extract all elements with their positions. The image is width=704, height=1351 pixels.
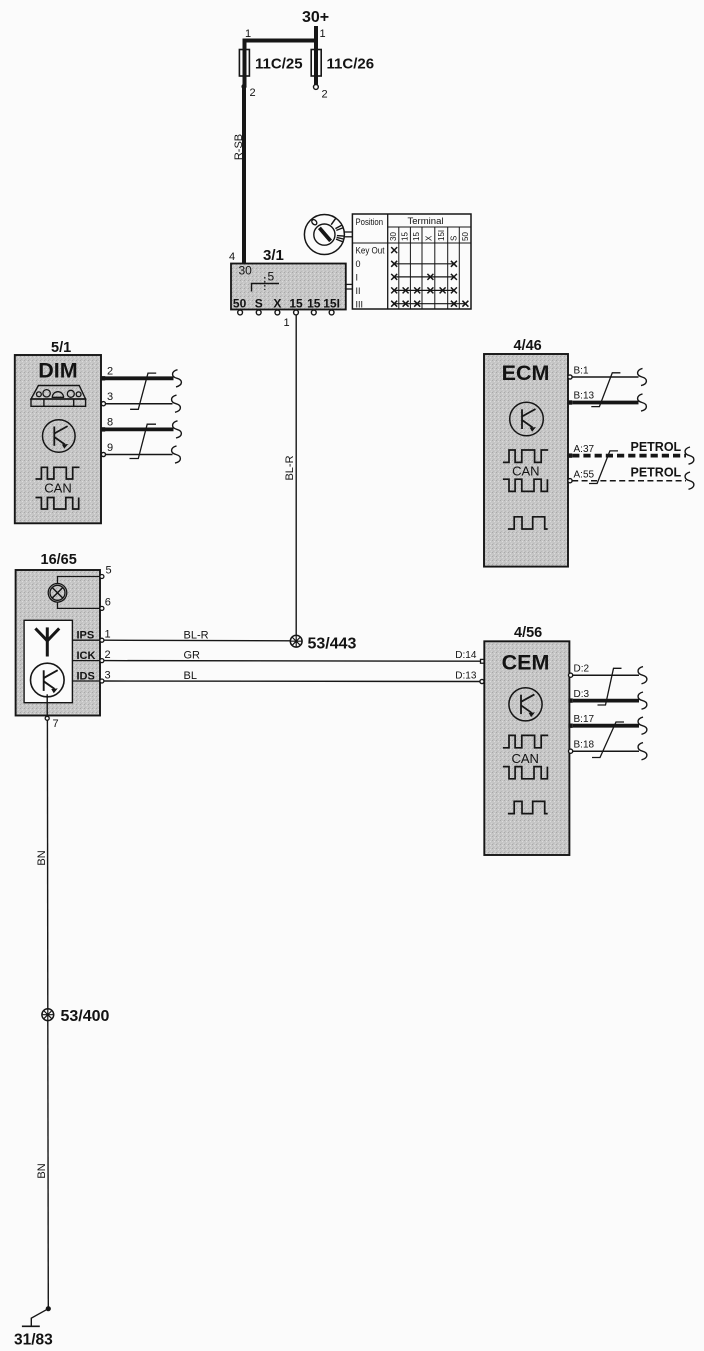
pin 2 of fuse 11C/26 open terminal (314, 85, 328, 101)
label 53/400 (61, 1008, 110, 1025)
ECM aux square wave (508, 517, 548, 529)
svg-text:CEM: CEM (502, 650, 550, 674)
svg-text:7: 7 (53, 718, 59, 730)
pin 7 of 16/65 (45, 716, 58, 730)
svg-text:30+: 30+ (302, 9, 329, 26)
wire from CEM D:3 (573, 699, 639, 703)
svg-text:IPS: IPS (77, 630, 95, 642)
pin D:3 of CEM (568, 689, 589, 703)
pin 2 of 16/65 (100, 649, 111, 663)
wire break squiggle pin 8 (173, 421, 182, 438)
wire from DIM pin 9 (106, 454, 173, 456)
terminal ICK link (72, 650, 100, 662)
ground connection dot (46, 1306, 51, 1311)
pin D:14 of CEM (481, 659, 485, 663)
wire fuse 11C/25 branch vertical (243, 41, 247, 87)
terminal 5 dashed linkage (265, 270, 275, 291)
wire break squiggle B:1 (638, 368, 647, 385)
wire from ECM B:13 (572, 401, 638, 405)
wire from CEM B:17 (573, 724, 639, 728)
indicator lamp symbol (48, 584, 67, 603)
terminal IPS link (72, 630, 100, 642)
key switch symbol (304, 215, 344, 255)
table row label II (356, 286, 361, 296)
label PETROL lower (631, 466, 682, 480)
antenna symbol (35, 627, 59, 656)
svg-text:III: III (356, 299, 364, 309)
pin 6 of 16/65 (100, 597, 111, 611)
label 31/83 (14, 1332, 53, 1349)
pin A:37 of ECM (568, 444, 595, 458)
wire from ECM A:55 petrol dashed thin (572, 480, 686, 482)
svg-text:S: S (449, 236, 458, 241)
svg-text:53/443: 53/443 (308, 636, 357, 653)
label 11C/25 (255, 56, 303, 73)
svg-text:II: II (356, 286, 361, 296)
wire 30+ horizontal bus to fuse 11C/25 (243, 39, 319, 43)
svg-text:2: 2 (105, 649, 111, 661)
ground 31/83 symbol (22, 1309, 48, 1327)
wire break squiggle pin 2 (173, 370, 182, 387)
svg-text:ICK: ICK (77, 650, 96, 662)
table row label III (356, 299, 364, 309)
table header Position (356, 217, 384, 227)
svg-text:X: X (273, 297, 281, 311)
pin 2 of DIM (101, 366, 113, 381)
pin B:18 of CEM (569, 740, 595, 754)
wire break squiggle A:37 (685, 447, 694, 464)
svg-text:BL-R: BL-R (184, 629, 209, 641)
svg-text:B:1: B:1 (574, 365, 589, 376)
table row Key Out mark (391, 247, 397, 253)
svg-text:BL: BL (184, 670, 197, 682)
svg-text:BN: BN (36, 850, 48, 865)
label BL-R horizontal (184, 629, 209, 641)
pin 3 of DIM (101, 391, 113, 406)
svg-text:D:13: D:13 (455, 671, 477, 682)
immobilizer antenna unit inner box (24, 620, 72, 702)
pin B:17 of CEM (568, 714, 594, 728)
svg-text:15: 15 (412, 232, 421, 241)
svg-text:1: 1 (284, 317, 290, 329)
wire break squiggle B:18 (638, 743, 647, 760)
pair slash DIM 8/9 (130, 424, 157, 458)
wire from ECM A:37 petrol dashed thick (572, 454, 686, 458)
engine control module ECM 4/46 body (484, 354, 568, 567)
label D:14 (455, 650, 477, 661)
label BN upper (36, 850, 48, 865)
svg-text:4/56: 4/56 (514, 625, 542, 641)
svg-text:ECM: ECM (502, 361, 550, 385)
svg-text:1: 1 (245, 28, 251, 40)
label BL-R vertical (284, 455, 296, 480)
svg-text:CAN: CAN (44, 480, 71, 495)
ignition switch 3/1 body (231, 264, 346, 310)
pin 1 of fuse 11C/25 (245, 28, 251, 40)
svg-text:B:13: B:13 (574, 391, 595, 402)
CEM electronic unit icon (509, 688, 542, 721)
ECM CAN square wave upper (503, 450, 548, 462)
pin D:13 of CEM (480, 679, 484, 683)
label 11C/26 (327, 56, 375, 73)
fuse 11C/26 (311, 50, 321, 77)
ECM electronic unit icon (510, 402, 544, 436)
table row I contact line and marks (391, 274, 457, 280)
wire GR from pin 2 to CEM D:14 (104, 660, 481, 663)
svg-text:D:3: D:3 (574, 689, 590, 700)
svg-text:B:18: B:18 (574, 740, 595, 751)
switch wiper symbol (252, 284, 280, 292)
pair slash CEM D:2/D:3 (598, 668, 622, 705)
pin B:13 of ECM (568, 391, 595, 405)
svg-text:Terminal: Terminal (408, 216, 444, 226)
svg-text:D:2: D:2 (574, 664, 590, 675)
svg-text:3/1: 3/1 (263, 247, 284, 264)
wire from DIM pin 3 (106, 403, 173, 405)
key position III ticks (336, 236, 344, 242)
wires switch body to table (346, 284, 353, 289)
svg-text:Position: Position (356, 217, 384, 227)
svg-text:GR: GR (184, 650, 201, 662)
svg-text:16/65: 16/65 (41, 552, 77, 568)
svg-text:3: 3 (105, 669, 111, 681)
pin 3 of 16/65 (100, 669, 111, 683)
fuse 11C/25 (239, 50, 249, 77)
wire from CEM B:18 (573, 750, 639, 752)
node 30+ supply label (302, 9, 329, 26)
label R-SB (233, 134, 245, 160)
wire BN lower from splice to ground (47, 1021, 50, 1309)
svg-text:30: 30 (389, 232, 398, 241)
svg-text:50: 50 (461, 232, 470, 241)
pin A:55 of ECM (568, 469, 595, 483)
svg-text:IDS: IDS (77, 670, 95, 682)
svg-text:31/83: 31/83 (14, 1332, 53, 1349)
svg-text:11C/26: 11C/26 (327, 56, 375, 73)
16/65 electronic unit icon (31, 663, 65, 697)
table row 0 contact line and marks (391, 261, 457, 267)
splice 53/400 (42, 1009, 54, 1021)
svg-text:1: 1 (320, 28, 326, 40)
wire from DIM pin 2 (105, 376, 174, 380)
label 16/65 (41, 552, 77, 568)
pin 9 of DIM (101, 442, 113, 457)
wire from DIM pin 8 (105, 427, 174, 431)
ECM CAN square wave lower (503, 479, 548, 491)
DIM CAN square wave lower (36, 498, 79, 510)
pin D:2 of CEM (569, 664, 590, 678)
svg-text:8: 8 (107, 417, 113, 429)
pin 4 of ignition switch (229, 251, 235, 263)
wires key symbol to table (344, 232, 352, 237)
svg-text:D:14: D:14 (455, 650, 477, 661)
lamp wiring to pins 5 and 6 (58, 577, 101, 609)
svg-text:1: 1 (105, 629, 111, 641)
terminal IDS link (72, 670, 100, 682)
CEM aux square wave (508, 801, 548, 813)
svg-text:4/46: 4/46 (514, 338, 542, 354)
key position table frame (352, 214, 471, 309)
wire break squiggle pin 9 (172, 446, 181, 463)
svg-text:BL-R: BL-R (284, 455, 296, 480)
wire 30+ feed vertical (314, 26, 318, 85)
switch terminal labels 50 S X 15 15 15I (233, 297, 340, 311)
pair slash DIM 2/3 (130, 373, 156, 409)
label CEM (502, 650, 550, 674)
svg-text:S: S (255, 297, 263, 311)
label 4/56 (514, 625, 542, 641)
table terminal column labels (389, 230, 470, 241)
svg-text:15: 15 (400, 232, 409, 241)
label PETROL upper (631, 440, 682, 454)
table row III contact line and marks (391, 301, 468, 307)
table row label 0 (356, 259, 361, 269)
table row label I (356, 273, 359, 283)
pair slash ECM B:1/B:13 (591, 373, 620, 407)
label 4/46 (514, 338, 542, 354)
svg-text:2: 2 (107, 366, 113, 378)
svg-text:30: 30 (239, 264, 253, 278)
svg-text:PETROL: PETROL (631, 440, 682, 454)
svg-text:BN: BN (36, 1163, 48, 1178)
svg-text:5: 5 (106, 565, 112, 577)
svg-text:PETROL: PETROL (631, 466, 682, 480)
label CAN (ECM) (512, 464, 539, 479)
wire break squiggle D:2 (638, 667, 647, 684)
pin 1 of 16/65 (100, 629, 111, 643)
label 5/1 (51, 340, 71, 356)
instrument cluster icon (31, 386, 86, 407)
wire break squiggle B:17 (638, 717, 647, 734)
key position II ticks (335, 225, 342, 230)
svg-text:2: 2 (250, 87, 256, 99)
label ECM (502, 361, 550, 385)
pin 8 of DIM (101, 417, 113, 432)
svg-text:15: 15 (307, 297, 321, 311)
CEM CAN square wave lower (503, 767, 548, 779)
svg-text:2: 2 (322, 89, 328, 101)
pair slash CEM B:17/B:18 (592, 722, 624, 758)
svg-text:3: 3 (107, 391, 113, 403)
table header Terminal (408, 216, 444, 226)
wire from CEM D:2 (573, 674, 639, 676)
label CAN (DIM) (44, 480, 71, 495)
pin 1 of fuse 11C/26 (320, 28, 326, 40)
svg-text:15I: 15I (437, 230, 446, 241)
pin B:1 of ECM (568, 365, 589, 379)
label 3/1 (263, 247, 284, 264)
label D:13 (455, 671, 477, 682)
svg-text:5: 5 (268, 270, 275, 284)
wire from ECM B:1 (572, 376, 638, 378)
svg-text:53/400: 53/400 (61, 1008, 110, 1025)
immobilizer 16/65 body (16, 570, 100, 716)
svg-text:11C/25: 11C/25 (255, 56, 303, 73)
table row II contact line and marks (391, 287, 457, 293)
svg-text:A:55: A:55 (574, 469, 595, 480)
wire R-SB from fuse 11C/25 to ignition switch (242, 87, 246, 264)
DIM electronic unit icon (43, 420, 76, 453)
label BN lower (36, 1163, 48, 1178)
pin 30 label inside switch (239, 264, 253, 278)
wire BN upper from pin 7 to splice 53/400 (46, 720, 48, 1009)
svg-text:B:17: B:17 (574, 714, 595, 725)
label CAN (CEM) (511, 751, 538, 766)
svg-text:R-SB: R-SB (233, 134, 245, 160)
pin 5 of 16/65 (100, 565, 112, 579)
CEM CAN square wave upper (503, 735, 548, 747)
svg-text:6: 6 (105, 597, 111, 609)
key position 0 tick (311, 219, 318, 226)
svg-text:5/1: 5/1 (51, 340, 71, 356)
wire break squiggle B:13 (638, 394, 647, 411)
label DIM (38, 359, 77, 383)
svg-text:4: 4 (229, 251, 235, 263)
svg-text:DIM: DIM (38, 359, 77, 383)
label BL (184, 670, 197, 682)
wire BL-R from pin 1 to splice 53/443 (104, 639, 290, 642)
key position I tick (331, 218, 336, 225)
combined instrument DIM 5/1 body (15, 355, 101, 523)
svg-text:CAN: CAN (511, 751, 538, 766)
svg-text:I: I (356, 273, 359, 283)
pair slash ECM A:37/A:55 (589, 451, 618, 484)
svg-text:9: 9 (107, 442, 113, 454)
wire break squiggle A:55 (685, 472, 694, 489)
wire BL from pin 3 to CEM D:13 (104, 680, 480, 683)
wire BL-R vertical from switch to splice (295, 315, 297, 635)
label 53/443 (308, 636, 357, 653)
svg-text:15I: 15I (323, 297, 340, 311)
svg-text:50: 50 (233, 297, 247, 311)
label GR (184, 650, 201, 662)
central electronic module CEM 4/56 body (484, 641, 569, 855)
svg-text:0: 0 (356, 259, 361, 269)
switch bottom terminals (238, 310, 334, 315)
wire break squiggle pin 3 (172, 395, 181, 412)
svg-text:CAN: CAN (512, 464, 539, 479)
table row label Key Out (356, 246, 385, 256)
pin 2 of fuse 11C/25 junction dot (241, 84, 255, 99)
splice 53/443 (290, 635, 302, 647)
svg-text:Key Out: Key Out (356, 246, 385, 256)
DIM CAN square wave upper (36, 467, 80, 479)
wire inner box to pin 7 (46, 694, 48, 716)
svg-text:X: X (424, 235, 433, 241)
pin 1 of ignition switch terminal 15 (284, 317, 290, 329)
svg-text:15: 15 (289, 297, 303, 311)
svg-text:A:37: A:37 (574, 444, 595, 455)
wire break squiggle D:3 (638, 692, 647, 709)
